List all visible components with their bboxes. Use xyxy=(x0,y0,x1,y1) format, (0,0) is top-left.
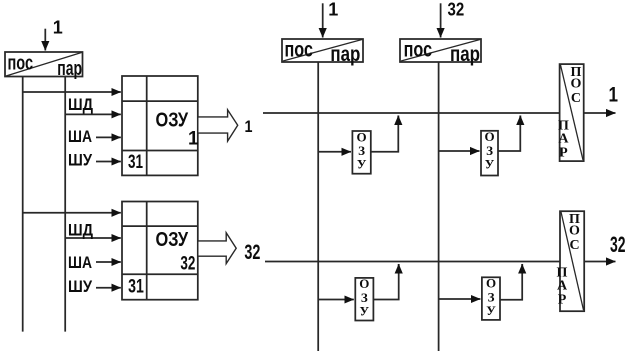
svg-text:ОЗУ: ОЗУ xyxy=(156,229,189,251)
svg-text:пос: пос xyxy=(285,38,314,61)
svg-text:ШУ: ШУ xyxy=(68,277,92,296)
svg-text:пар: пар xyxy=(57,58,82,80)
svg-text:С: С xyxy=(569,238,579,253)
svg-text:1: 1 xyxy=(188,129,199,150)
svg-text:ШД: ШД xyxy=(68,221,93,240)
svg-text:пос: пос xyxy=(404,38,433,61)
svg-text:1: 1 xyxy=(245,117,253,136)
svg-text:Р: Р xyxy=(558,292,567,307)
svg-text:ОЗУ: ОЗУ xyxy=(156,109,189,131)
svg-text:Р: Р xyxy=(559,145,568,160)
svg-text:31: 31 xyxy=(128,151,143,173)
svg-text:1: 1 xyxy=(53,17,63,37)
svg-text:пар: пар xyxy=(330,43,360,66)
svg-text:32: 32 xyxy=(448,0,465,19)
svg-text:ША: ША xyxy=(68,253,92,272)
svg-text:У: У xyxy=(485,156,495,171)
svg-text:пос: пос xyxy=(8,52,34,74)
svg-text:32: 32 xyxy=(180,254,195,275)
svg-text:У: У xyxy=(357,157,367,172)
svg-text:32: 32 xyxy=(610,232,626,257)
svg-text:1: 1 xyxy=(328,0,338,19)
svg-text:У: У xyxy=(360,304,370,319)
svg-text:1: 1 xyxy=(609,84,619,107)
svg-text:32: 32 xyxy=(244,240,260,264)
svg-text:ШД: ШД xyxy=(68,95,93,114)
svg-text:У: У xyxy=(486,303,496,318)
svg-text:С: С xyxy=(571,91,581,106)
svg-text:О: О xyxy=(569,224,580,239)
svg-text:О: О xyxy=(570,77,581,92)
svg-text:пар: пар xyxy=(450,43,480,66)
svg-text:31: 31 xyxy=(128,276,144,298)
svg-text:ШУ: ШУ xyxy=(68,151,92,170)
svg-text:ША: ША xyxy=(68,127,92,146)
